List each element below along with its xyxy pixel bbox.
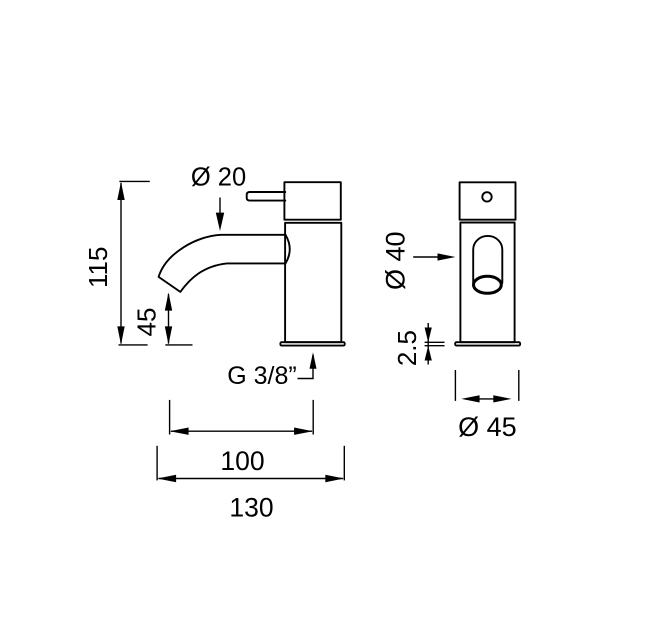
body cylinder (front view): [285, 223, 341, 342]
svg-text:100: 100: [220, 446, 264, 476]
dim 130 left extension line: [156, 446, 158, 481]
dim Ø20 arrowhead: [216, 213, 224, 231]
svg-text:Ø 20: Ø 20: [191, 164, 246, 192]
dim 115 top arrowhead: [117, 182, 124, 200]
base flange (side view): [455, 342, 520, 345]
dim G3/8 arrowhead: [310, 352, 317, 369]
dim 130 right extension line: [343, 446, 345, 481]
mixer cap (front view): [284, 182, 340, 220]
dim Ø20 leader line: [219, 198, 221, 216]
dim 100 left extension line: [169, 400, 171, 435]
lever handle (front view): [247, 192, 286, 201]
dim 100 dimension line: [171, 430, 312, 432]
dim 2.5 bottom extension line: [425, 345, 445, 347]
dim 2.5 lower arrowhead: [425, 346, 432, 361]
spout-body fillet arc: [286, 235, 290, 264]
mixer cap (side view): [460, 182, 516, 219]
dim G3/8 leader: [298, 355, 314, 379]
dim 2.5 arrow stem: [427, 323, 429, 365]
spout outlet ellipse (side view): [474, 276, 502, 293]
body cylinder (side view): [460, 223, 514, 343]
dim 45 top arrowhead: [165, 292, 172, 310]
dim 45 bottom tick: [165, 344, 192, 346]
dim Ø45 dimension line: [478, 398, 496, 400]
dim 130 left arrowhead: [157, 475, 176, 482]
dim 100 right extension line: [312, 400, 314, 435]
svg-text:2.5: 2.5: [392, 330, 422, 366]
dim 2.5 top extension line: [425, 341, 445, 343]
dim 100 left arrowhead: [170, 428, 189, 435]
dim Ø45 left arrowhead: [461, 395, 479, 402]
dim 2.5 upper arrowhead: [425, 328, 432, 343]
dim Ø40 leader line: [413, 256, 442, 258]
svg-text:130: 130: [229, 493, 273, 523]
svg-text:115: 115: [83, 247, 113, 288]
dim 115 bottom arrowhead: [117, 326, 124, 344]
svg-text:45: 45: [132, 308, 162, 337]
dim Ø45 right extension line: [518, 370, 520, 401]
handle pivot hole (side view): [482, 192, 491, 201]
svg-text:G 3/8”: G 3/8”: [227, 362, 296, 390]
dim Ø45 right arrowhead: [493, 395, 511, 402]
dim 115 dimension line: [120, 183, 122, 344]
spout silhouette capsule (side view): [473, 236, 502, 283]
spout (front view): [159, 235, 286, 292]
dim 130 right arrowhead: [325, 475, 344, 482]
dim Ø45 left extension line: [454, 370, 456, 401]
dim Ø40 arrowhead: [438, 253, 456, 260]
dim 130 dimension line: [159, 478, 344, 480]
svg-text:Ø 40: Ø 40: [381, 231, 411, 290]
dim 115 top tick: [119, 180, 149, 182]
dim 45 dimension line: [168, 294, 170, 344]
svg-text:Ø 45: Ø 45: [458, 412, 517, 442]
dim 100 right arrowhead: [294, 428, 313, 435]
base flange (front view): [280, 342, 344, 345]
dim 115 bottom tick: [119, 344, 148, 346]
dim 45 bottom arrowhead: [165, 326, 172, 344]
